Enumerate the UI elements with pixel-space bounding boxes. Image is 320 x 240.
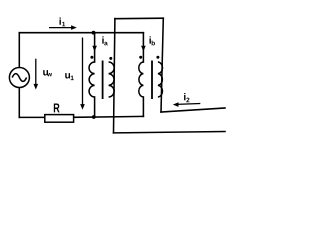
transformer T2 primary winding	[139, 62, 144, 97]
polarity dot T2 secondary	[156, 56, 159, 59]
transformer T1 primary winding	[89, 62, 95, 97]
wire T1 secondary vertical	[114, 19, 115, 133]
wire top rail primary	[19, 32, 143, 34]
wire left rail	[18, 33, 20, 68]
wire T2 primary feed	[142, 33, 144, 62]
wire T2 secondary vertical	[161, 18, 163, 112]
wire T2 primary bottom stub	[142, 97, 144, 116]
wire upper output rail	[161, 108, 225, 112]
wire lower output rail	[114, 132, 226, 133]
transformer T1 core	[102, 61, 104, 100]
transformer T2 secondary winding	[158, 62, 163, 97]
voltage arrow u1	[65, 38, 85, 110]
wire bottom rail right of resistor	[74, 115, 144, 118]
ac source V1	[9, 68, 29, 88]
polarity dot T1 secondary	[109, 57, 112, 60]
wire T1 primary bottom stub	[94, 97, 96, 117]
wire T1 primary feed	[94, 33, 96, 62]
wire secondary top rail	[115, 17, 163, 20]
junction node top (i1 splits)	[92, 31, 96, 35]
label R	[54, 103, 60, 112]
resistor R	[45, 115, 74, 123]
transformer T2 core	[151, 61, 153, 100]
current arrow ia	[92, 36, 107, 51]
current arrow ib	[141, 36, 155, 51]
wire bottom rail left of resistor	[19, 116, 45, 118]
current arrow i1	[49, 18, 77, 30]
current arrow i2	[173, 93, 201, 107]
junction node bottom	[92, 115, 96, 119]
transformer T1 secondary winding	[109, 62, 115, 97]
wire left rail lower	[18, 88, 20, 118]
voltage arrow uw	[34, 59, 52, 90]
polarity dot T1 primary	[90, 56, 93, 59]
polarity dot T2 primary	[139, 56, 142, 59]
